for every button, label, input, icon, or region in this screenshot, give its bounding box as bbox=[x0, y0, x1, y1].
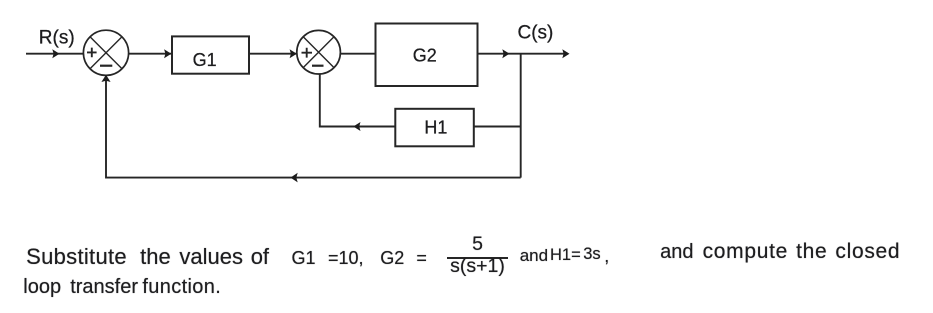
cross diagonals of S1 bbox=[90, 37, 122, 69]
block H1 bbox=[395, 109, 474, 147]
wire: H1 output to corner below S2 bbox=[320, 74, 396, 126]
fraction 5 / s(s+1) bbox=[448, 235, 508, 255]
arrowhead: into S2 bbox=[290, 49, 297, 58]
svg-text:G1: G1 bbox=[193, 50, 217, 70]
caption text line 1 bbox=[26, 246, 127, 268]
block G1 bbox=[172, 36, 249, 73]
minus sign S2 bbox=[312, 65, 324, 67]
svg-text:C(s): C(s) bbox=[518, 23, 554, 44]
arrowhead: into bottom of S1 pointing up bbox=[101, 75, 110, 82]
wire: S2 to block G2 bbox=[340, 53, 375, 55]
block G2 bbox=[376, 24, 478, 87]
arrowhead: after G2 bbox=[502, 49, 509, 58]
svg-text:R(s): R(s) bbox=[39, 27, 75, 48]
wire: input into summing junction S1 bbox=[26, 53, 83, 55]
summing junction S1 bbox=[83, 30, 128, 75]
arrowhead: outer loop pointing left bbox=[291, 173, 298, 183]
cross diagonals of S2 bbox=[303, 37, 334, 68]
minus sign S1 bbox=[100, 65, 112, 67]
arrowhead: input wire bbox=[52, 49, 59, 58]
wire: S1 to block G1 bbox=[129, 53, 171, 55]
wire: G2 output to C(s) bbox=[478, 53, 569, 55]
wire: takeoff node into H1 bbox=[474, 126, 521, 128]
summing junction S2 bbox=[297, 30, 341, 74]
svg-text:H1: H1 bbox=[424, 117, 447, 137]
arrowhead: into G1 bbox=[164, 49, 171, 58]
plus sign S1 bbox=[87, 48, 97, 58]
wire: outer feedback loop bottom bbox=[106, 76, 521, 178]
svg-text:G2: G2 bbox=[413, 45, 437, 65]
plus sign S2 bbox=[302, 48, 313, 58]
node: takeoff point below C(s) bbox=[520, 54, 522, 178]
arrowhead: H1 feedback pointing left bbox=[353, 122, 360, 131]
wire: G1 to summing junction S2 bbox=[249, 53, 296, 55]
arrowhead: output end C(s) bbox=[562, 49, 569, 58]
caption text line 2 bbox=[23, 277, 61, 297]
